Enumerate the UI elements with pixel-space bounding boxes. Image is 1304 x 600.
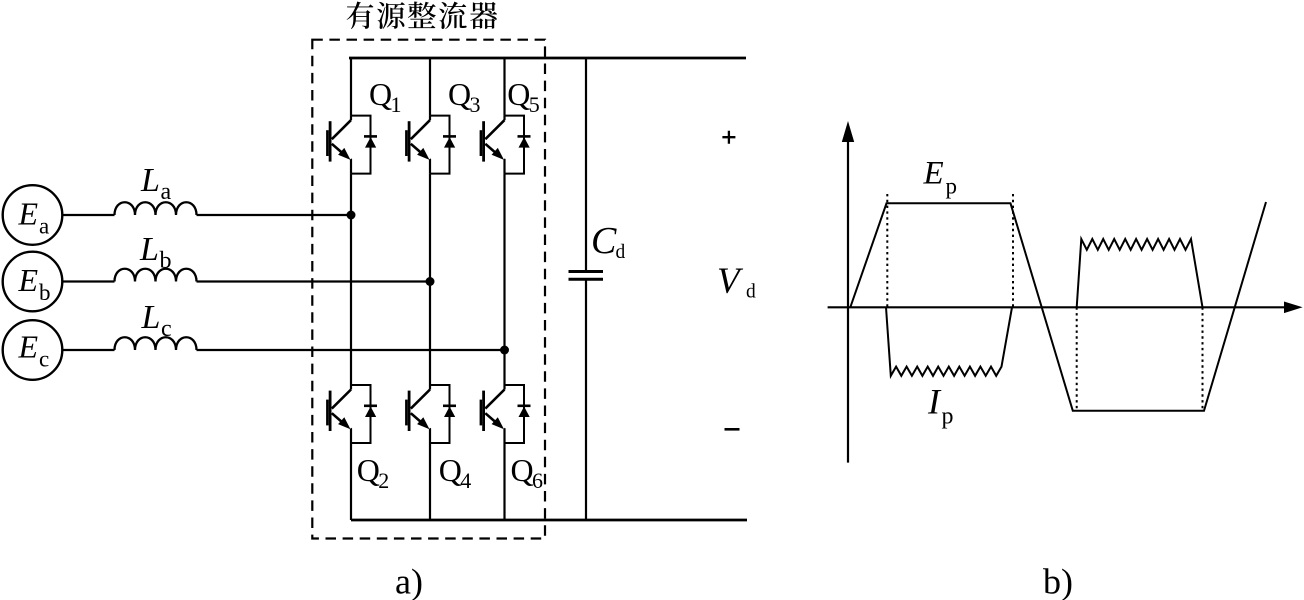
minus sign bbox=[725, 428, 740, 431]
transistor Q4 (IGBT with antiparallel diode) bbox=[406, 385, 456, 443]
node phase a junction bbox=[347, 211, 356, 220]
source Eb bbox=[3, 252, 63, 312]
wire phase a left bbox=[62, 214, 114, 216]
node phase c junction bbox=[500, 346, 509, 355]
wire leg x=504.5 middle bbox=[503, 174, 505, 385]
svg-text:Q: Q bbox=[357, 452, 380, 488]
svg-text:E: E bbox=[18, 329, 39, 365]
svg-text:V: V bbox=[717, 261, 744, 302]
svg-text:E: E bbox=[18, 262, 39, 298]
svg-text:b: b bbox=[39, 280, 51, 305]
wire leg x=430 middle bbox=[429, 174, 431, 385]
curve Ip positive pulse bbox=[1077, 239, 1203, 307]
svg-text:c: c bbox=[161, 316, 172, 342]
svg-text:Q: Q bbox=[511, 452, 534, 488]
node phase b junction bbox=[426, 277, 435, 286]
transistor Q3 (IGBT with antiparallel diode) bbox=[406, 116, 456, 174]
svg-text:a): a) bbox=[395, 562, 423, 600]
transistor Q6 (IGBT with antiparallel diode) bbox=[481, 385, 531, 443]
svg-text:L: L bbox=[140, 162, 160, 199]
label 有源整流器 bbox=[347, 2, 498, 30]
svg-text:d: d bbox=[746, 282, 756, 303]
source Ec bbox=[3, 320, 63, 380]
svg-text:C: C bbox=[591, 220, 617, 262]
svg-text:b: b bbox=[160, 248, 172, 274]
wire leg x=351 middle bbox=[350, 174, 352, 385]
wire phase b left bbox=[62, 280, 114, 282]
curve Ep trapezoid bbox=[850, 202, 1266, 411]
wire phase b right bbox=[197, 280, 431, 282]
wire leg x=504.5 lower bbox=[503, 443, 505, 520]
dotted guide x=1013 bbox=[1012, 194, 1014, 307]
svg-text:p: p bbox=[942, 404, 954, 430]
svg-text:Q: Q bbox=[439, 452, 462, 488]
svg-text:I: I bbox=[927, 382, 942, 422]
x axis bbox=[828, 306, 1288, 308]
svg-text:4: 4 bbox=[460, 468, 471, 493]
dotted guide x=1076.7 bbox=[1076, 307, 1078, 411]
svg-text:Q: Q bbox=[369, 76, 392, 112]
svg-text:L: L bbox=[139, 231, 159, 268]
svg-text:a: a bbox=[39, 214, 49, 239]
svg-text:a: a bbox=[161, 179, 172, 205]
wire leg x=430 upper bbox=[429, 58, 431, 116]
wire leg x=351 lower bbox=[350, 443, 352, 520]
svg-text:E: E bbox=[923, 155, 944, 191]
svg-text:Q: Q bbox=[507, 76, 530, 112]
svg-text:b): b) bbox=[1043, 562, 1073, 600]
wire phase a right bbox=[197, 214, 352, 216]
wire phase c right bbox=[197, 349, 505, 351]
wire bottom DC rail bbox=[351, 519, 747, 522]
svg-text:p: p bbox=[946, 173, 958, 198]
svg-text:c: c bbox=[39, 347, 49, 372]
transistor Q2 (IGBT with antiparallel diode) bbox=[327, 385, 377, 443]
svg-text:6: 6 bbox=[532, 468, 543, 493]
transistor Q1 (IGBT with antiparallel diode) bbox=[327, 116, 377, 174]
svg-text:2: 2 bbox=[378, 468, 389, 493]
svg-text:Q: Q bbox=[448, 76, 471, 112]
inductor Lc bbox=[115, 337, 197, 350]
source Ea bbox=[3, 185, 63, 245]
wire top DC rail bbox=[349, 57, 746, 60]
dotted guide x=887 bbox=[886, 194, 888, 307]
svg-text:d: d bbox=[616, 242, 626, 263]
curve Ip negative pulse bbox=[886, 307, 1012, 376]
wire phase c left bbox=[62, 349, 114, 351]
transistor Q5 (IGBT with antiparallel diode) bbox=[481, 116, 531, 174]
inductor Lb bbox=[115, 269, 197, 282]
wire leg x=504.5 upper bbox=[503, 58, 505, 116]
wire leg x=430 lower bbox=[429, 443, 431, 520]
dotted guide x=1202.5 bbox=[1202, 307, 1204, 411]
plus sign bbox=[722, 131, 735, 144]
svg-text:3: 3 bbox=[470, 92, 481, 117]
wire leg x=351 upper bbox=[350, 58, 352, 116]
svg-text:L: L bbox=[141, 299, 161, 336]
active rectifier dashed boundary bbox=[312, 40, 545, 539]
capacitor Cd bbox=[585, 58, 587, 272]
svg-text:5: 5 bbox=[529, 92, 540, 117]
svg-text:1: 1 bbox=[391, 92, 402, 117]
y axis bbox=[847, 135, 849, 463]
inductor La bbox=[115, 202, 197, 215]
svg-text:E: E bbox=[18, 196, 39, 232]
